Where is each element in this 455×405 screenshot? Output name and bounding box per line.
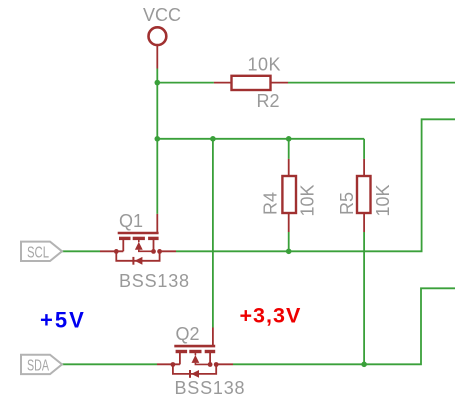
pin Q2 source wire <box>216 363 233 365</box>
wire R4 bottom <box>288 232 290 251</box>
svg-text:R2: R2 <box>257 91 280 111</box>
svg-text:R4: R4 <box>261 192 281 215</box>
transistor Q2 <box>171 346 219 378</box>
svg-text:VCC: VCC <box>143 5 181 25</box>
junction dot Q2 gate rail2 <box>210 136 216 142</box>
supply symbol VCC <box>149 27 167 45</box>
junction dot VCC rail2 <box>155 136 161 142</box>
svg-text:+3,3V: +3,3V <box>240 304 302 328</box>
wire Q2 gate vertical <box>212 139 214 328</box>
svg-text:10K: 10K <box>298 184 318 216</box>
wire rail2 <box>157 138 364 140</box>
junction dot R5 SDA <box>361 362 367 368</box>
svg-text:10K: 10K <box>373 184 393 216</box>
wire VCC vertical <box>156 69 158 214</box>
svg-text:+5V: +5V <box>40 308 86 333</box>
junction dot VCC rail1 <box>155 80 161 86</box>
wire R5 top <box>363 139 365 159</box>
wire R4 top <box>288 139 290 159</box>
pin R4 top <box>288 159 290 176</box>
pin Q1 gate <box>156 214 158 232</box>
pin Q1 drain wire <box>100 250 123 252</box>
svg-text:BSS138: BSS138 <box>119 271 190 291</box>
pin R2 left <box>214 82 232 84</box>
pin Q2 gate <box>212 328 214 346</box>
net label SDA <box>21 355 62 374</box>
pin VCC <box>156 45 158 69</box>
wire rail1 right <box>288 82 455 84</box>
svg-text:SDA: SDA <box>27 358 49 375</box>
svg-text:10K: 10K <box>248 55 282 75</box>
transistor Q1 <box>114 233 162 265</box>
pin R5 top <box>363 159 365 176</box>
wire rail1 left <box>157 82 214 84</box>
wire SDA left <box>62 363 157 365</box>
pin R4 bottom <box>288 213 290 232</box>
svg-text:Q2: Q2 <box>176 324 200 344</box>
net label SCL <box>21 242 62 261</box>
svg-text:R5: R5 <box>337 192 357 215</box>
pin Q1 source wire <box>160 250 176 252</box>
pin R5 bottom <box>363 213 365 232</box>
resistor R2 <box>232 76 271 90</box>
svg-text:Q1: Q1 <box>119 211 143 231</box>
junction dot R4 SCL <box>286 249 292 255</box>
pin Q2 drain wire <box>157 363 180 365</box>
pin R2 right <box>271 82 289 84</box>
svg-text:BSS138: BSS138 <box>175 378 246 398</box>
wire SDA right <box>233 288 455 364</box>
resistor R5 <box>357 176 371 213</box>
resistor R4 <box>282 176 296 213</box>
wire SCL right <box>176 119 455 251</box>
wire SCL left <box>62 250 100 252</box>
wire R5 bottom <box>363 232 365 364</box>
junction dot R4 rail2 <box>286 136 292 142</box>
svg-text:SCL: SCL <box>27 245 49 262</box>
